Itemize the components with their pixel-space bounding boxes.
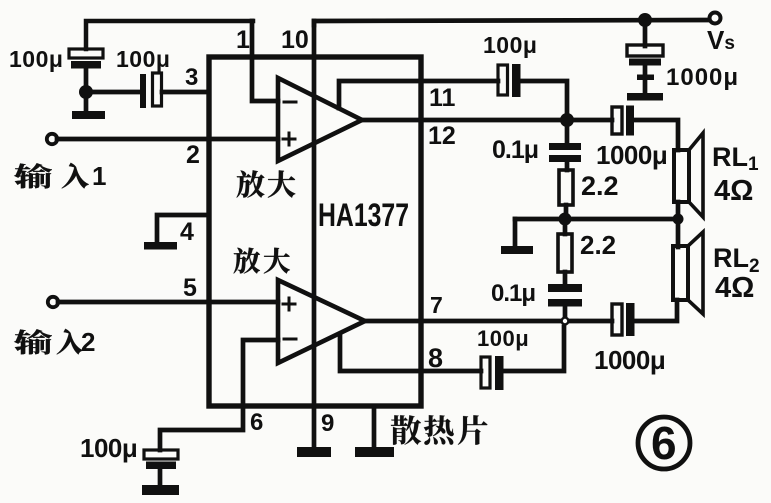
label amplifier 1 (fang da) (237, 170, 296, 197)
wire U1b inverting input to pin 6 and down (160, 340, 278, 450)
svg-text:HA1377: HA1377 (318, 197, 409, 233)
wire RL1 bottom to mid node (676, 202, 681, 219)
wire input 2 to pin 5 and + input of U1b (58, 300, 278, 305)
minus sign U1b (284, 338, 296, 341)
capacitor C6 100u on pin 8 (481, 356, 504, 390)
svg-text:3: 3 (185, 64, 198, 91)
wire input 1 to pin 2 and + input of U1a (57, 137, 278, 142)
capacitor 0.1u snubber 2 (548, 284, 582, 318)
wire C7 to RL2 (634, 300, 677, 321)
wire Vcc rail right segment to Vs (314, 20, 709, 25)
wire pin 1 lead from rail to inverting input of U1a (252, 21, 278, 101)
resistor R1 2.2 (559, 170, 573, 219)
svg-text:2: 2 (186, 141, 200, 169)
capacitor C5 1000u output coupling to RL1 (612, 106, 634, 136)
svg-text:1000μ: 1000μ (596, 140, 667, 170)
wire Vcc rail left segment (86, 21, 253, 49)
svg-text:1000μ: 1000μ (666, 64, 739, 91)
capacitor C1 100u input decoupling (top-left, polarized) (69, 49, 103, 110)
capacitor C2 100u coupling to pin 3 (140, 73, 162, 108)
svg-text:2.2: 2.2 (581, 171, 619, 201)
label amplifier 2 (fang da) (234, 248, 290, 274)
svg-text:4: 4 (180, 218, 194, 246)
wire C4 to node A (521, 81, 567, 120)
svg-text:1: 1 (236, 26, 250, 54)
svg-text:0.1μ: 0.1μ (491, 280, 535, 307)
speaker RL1 (674, 133, 703, 217)
ground pin 4 (144, 242, 177, 250)
minus sign U1a (284, 101, 296, 104)
label input 2 (shu ru 2) (14, 329, 83, 355)
label input 1 (shu ru 1) (14, 163, 89, 189)
svg-text:9: 9 (321, 410, 334, 437)
wire C6 to pin7 ring node (501, 327, 564, 371)
svg-text:6: 6 (651, 417, 677, 469)
wire from C1 node to C2 (86, 90, 140, 95)
plus sign U1a (283, 133, 295, 145)
wire C2 to pin 3 (162, 90, 207, 95)
terminal Vs supply (710, 13, 721, 24)
speaker RL2 (673, 232, 703, 314)
svg-text:6: 6 (250, 409, 263, 436)
ground mid (501, 246, 533, 254)
node junction dot RL1/RL2 mid (673, 214, 684, 225)
svg-text:100μ: 100μ (9, 46, 63, 72)
op-amp U1a triangle (278, 78, 362, 161)
op-amp U1b triangle (278, 280, 365, 363)
capacitor C7 1000u output coupling to RL2 (612, 303, 635, 336)
svg-text:100μ: 100μ (477, 326, 529, 351)
svg-text:4Ω: 4Ω (714, 175, 753, 207)
ground below C8 (142, 485, 179, 495)
wire pin 11 internal from output slope (339, 81, 498, 108)
node junction dot on rail at 1000u decoupling cap (638, 13, 652, 27)
capacitor 0.1u snubber 1 (549, 120, 581, 170)
wire pin 12 output to node (362, 118, 612, 123)
capacitor C8 100u on pin 6 (polarized) (144, 450, 178, 485)
svg-text:2.2: 2.2 (580, 230, 616, 260)
svg-text:8: 8 (428, 343, 443, 373)
svg-text:2: 2 (81, 327, 95, 357)
wire to mid ground (513, 219, 518, 245)
terminal input 2 (48, 297, 58, 307)
capacitor C4 100u on pin 11 (498, 64, 521, 97)
svg-text:4Ω: 4Ω (715, 272, 754, 304)
svg-text:1: 1 (92, 161, 106, 191)
svg-text:100μ: 100μ (483, 32, 537, 58)
svg-text:RL1: RL1 (712, 142, 759, 175)
node junction dot at resistors (559, 213, 572, 226)
resistor R2 2.2 (558, 219, 572, 284)
IC U1 HA1377 outline box (209, 57, 421, 406)
wire pin10-pin9 internal vertical line (312, 21, 317, 448)
svg-text:11: 11 (429, 84, 456, 112)
svg-text:100μ: 100μ (116, 46, 170, 72)
figure number circle 6 (638, 417, 690, 469)
wire pin 7 output (365, 319, 612, 324)
wire mid node horizontal (515, 217, 678, 222)
wire C5 to RL1 (634, 120, 678, 150)
svg-text:1000μ: 1000μ (594, 345, 665, 375)
svg-text:100μ: 100μ (80, 433, 137, 463)
ground heat sink (355, 447, 394, 457)
plus sign U1b (283, 298, 295, 310)
svg-text:0.1μ: 0.1μ (492, 136, 538, 164)
terminal input 1 (47, 134, 57, 144)
node junction dot below C1 (79, 85, 93, 99)
node ring junction pin7 (562, 318, 569, 325)
wire mid node to RL2 top (676, 219, 681, 247)
svg-text:10: 10 (281, 26, 309, 54)
capacitor C3 1000u supply decoupling (627, 21, 663, 101)
svg-text:7: 7 (430, 292, 443, 318)
svg-text:Vs: Vs (707, 25, 735, 55)
node A junction dot pin12/feedback (560, 113, 574, 127)
label heat sink (san re pian) (391, 415, 488, 445)
wire pin 8 internal from output slope (340, 335, 481, 371)
svg-text:5: 5 (183, 274, 197, 302)
ground pin 9 (297, 447, 331, 457)
svg-text:12: 12 (428, 122, 456, 150)
heat sink tab lead (372, 406, 377, 447)
ground below C1 (72, 111, 105, 119)
wire pin 4 to ground (157, 215, 207, 241)
